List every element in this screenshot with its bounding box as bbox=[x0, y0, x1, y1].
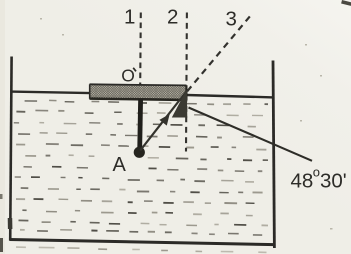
svg-text:o: o bbox=[313, 165, 320, 180]
incident ray A to surface bbox=[140, 92, 186, 151]
dashed ray 3 bbox=[187, 14, 252, 92]
svg-text:2: 2 bbox=[167, 6, 178, 29]
floating plank (hatched) bbox=[90, 84, 187, 100]
tank right wall bbox=[273, 61, 274, 249]
tank left wall bbox=[10, 57, 11, 241]
leader line to angle label bbox=[189, 108, 313, 161]
water surface right segment bbox=[187, 95, 274, 97]
wall smudge artifact bbox=[8, 218, 13, 229]
svg-text:48: 48 bbox=[291, 170, 314, 193]
water dashes bbox=[14, 100, 268, 235]
tank bottom bbox=[10, 240, 275, 245]
svg-text:A: A bbox=[113, 154, 127, 176]
left edge scan marks bbox=[0, 194, 3, 199]
ray arrowhead bbox=[159, 114, 169, 126]
point A dot bbox=[134, 147, 145, 158]
svg-text:1: 1 bbox=[124, 6, 135, 29]
faint dash row below tank (scan artifact) bbox=[16, 247, 267, 252]
water surface left segment bbox=[11, 92, 91, 94]
svg-text:3: 3 bbox=[226, 8, 237, 31]
prime tick of O bbox=[133, 68, 136, 72]
top-right corner scan mark bbox=[341, 0, 351, 6]
rod from plank down to A bbox=[137, 99, 143, 150]
shaded wedge at refraction point bbox=[172, 89, 188, 117]
dashed normal line 2 bbox=[185, 13, 188, 152]
dashed normal line 1 bbox=[139, 13, 142, 85]
svg-text:30': 30' bbox=[320, 170, 347, 193]
paper specks (scan noise) bbox=[40, 18, 333, 230]
